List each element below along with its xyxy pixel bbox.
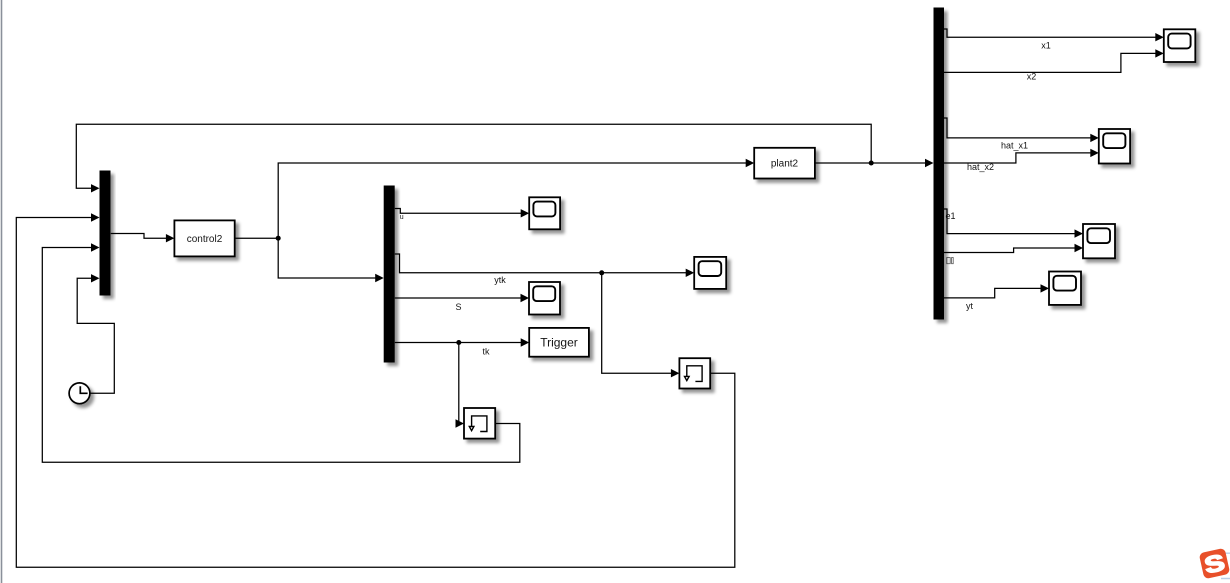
arrowhead into mux input2 bbox=[91, 213, 100, 221]
wire unnamed: right demux out6 to scope F input2 bbox=[944, 248, 1075, 253]
arrowhead into mux input3 bbox=[91, 243, 100, 251]
clock block bbox=[69, 383, 90, 404]
junction dot at control2 output bbox=[276, 236, 281, 241]
scope C bbox=[694, 257, 726, 289]
wire junction down to mid demux input bbox=[278, 238, 376, 278]
junction dot tk bbox=[456, 340, 461, 345]
svg-text:tk: tk bbox=[482, 347, 490, 357]
svg-text:hat_x2: hat_x2 bbox=[967, 162, 994, 172]
arrowhead into mid demux bbox=[375, 274, 384, 282]
faint blue band lines behind logo bbox=[1220, 553, 1230, 578]
svg-text:yt: yt bbox=[966, 301, 974, 311]
arrowhead into mux input1 bbox=[91, 184, 100, 192]
arrowhead into scope C bbox=[686, 269, 695, 277]
wire e1: right demux out5 to scope F input1 bbox=[944, 209, 1075, 234]
svg-text:hat_x1: hat_x1 bbox=[1001, 141, 1028, 151]
wire clock to mux input4 bbox=[77, 278, 114, 393]
wire x1: right demux out1 to scope D input1 bbox=[944, 29, 1156, 37]
wire ytk: mid demux out2 to junction to scope C bbox=[395, 254, 687, 273]
wire ytk junction down into loop block2 bbox=[602, 273, 672, 373]
junction dot at plant2 output bbox=[869, 161, 874, 166]
scope F bbox=[1083, 224, 1115, 258]
svg-text:S: S bbox=[455, 302, 461, 312]
arrowhead into mux input4 bbox=[91, 274, 100, 282]
wire junction up to plant2 input bbox=[278, 163, 746, 238]
loop block2 bbox=[679, 358, 710, 388]
window left edge bbox=[1, 0, 3, 583]
block Trigger bbox=[529, 328, 589, 357]
scope B bbox=[529, 282, 560, 315]
wire loop block2 output outer feedback to mux input2 bbox=[16, 218, 735, 568]
block control2 bbox=[174, 220, 234, 256]
scope A bbox=[529, 197, 560, 229]
svg-text:e1: e1 bbox=[946, 211, 956, 221]
block plant2 bbox=[754, 148, 815, 179]
scope D bbox=[1164, 29, 1196, 62]
arrowhead into scope B bbox=[521, 294, 530, 302]
svg-text:Trigger: Trigger bbox=[540, 336, 578, 350]
arrowhead into right demux bbox=[925, 159, 934, 167]
svg-text:ytk: ytk bbox=[494, 275, 506, 285]
wire yt: right demux out7 to scope G bbox=[944, 288, 1041, 298]
arrowhead into loop block1 bbox=[456, 419, 465, 427]
wire control2 output to junction bbox=[235, 237, 279, 239]
svg-text:plant2: plant2 bbox=[771, 159, 799, 170]
arrowhead scope E input2 bbox=[1090, 149, 1099, 157]
scope E bbox=[1099, 129, 1130, 164]
wire tk: mid demux out4 to Trigger bbox=[395, 342, 522, 344]
loop block2 icon bbox=[685, 366, 703, 382]
wire hat_x2: right demux out4 to scope E input2 bbox=[944, 153, 1091, 163]
loop block1 bbox=[464, 408, 495, 439]
arrowhead scope G bbox=[1041, 284, 1050, 292]
svg-text:u: u bbox=[400, 214, 404, 221]
wire mux output to control2 bbox=[111, 234, 167, 239]
wire x2: right demux out2 to scope D input2 bbox=[944, 53, 1156, 72]
label garbled glyphs bbox=[947, 258, 953, 264]
arrowhead scope D input2 bbox=[1155, 49, 1164, 57]
clock hands bbox=[80, 386, 87, 393]
demux block middle (vertical bar) bbox=[384, 186, 395, 363]
arrowhead into control2 bbox=[166, 234, 175, 242]
junction dot ytk bbox=[599, 270, 604, 275]
mux block left (vertical bar) bbox=[100, 171, 111, 296]
wire mid demux out1 to scope A bbox=[395, 209, 522, 214]
arrowhead scope E input1 bbox=[1090, 134, 1099, 142]
svg-text:x1: x1 bbox=[1041, 41, 1051, 51]
arrowhead into Trigger bbox=[521, 338, 530, 346]
wire loop block1 output feedback to mux input3 bbox=[42, 248, 520, 463]
arrowhead scope F input2 bbox=[1075, 244, 1084, 252]
arrowhead into scope A bbox=[521, 209, 530, 217]
arrowhead into loop block2 bbox=[671, 369, 680, 377]
arrowhead into plant2 bbox=[746, 159, 755, 167]
loop block1 icon bbox=[469, 416, 487, 432]
scope G bbox=[1049, 272, 1081, 305]
arrowhead scope D input1 bbox=[1155, 33, 1164, 41]
svg-text:x2: x2 bbox=[1027, 72, 1037, 82]
wire plant2 output to junction to right demux bbox=[815, 162, 926, 164]
wire tk junction down into loop block1 bbox=[456, 343, 459, 424]
demux block right (vertical bar) bbox=[934, 8, 945, 320]
wire S: mid demux out3 to scope B bbox=[395, 297, 522, 299]
arrowhead scope F input1 bbox=[1075, 229, 1084, 237]
svg-text:control2: control2 bbox=[187, 234, 223, 245]
simulink logo bbox=[1199, 548, 1230, 580]
wire feedback from plant2 junction up over to left mux input1 bbox=[76, 124, 871, 188]
wire hat_x1: right demux out3 to scope E input1 bbox=[944, 118, 1091, 138]
